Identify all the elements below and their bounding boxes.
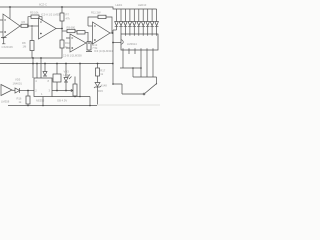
svg-text:VD3: VD3 — [64, 70, 70, 74]
resistor feedback IC2b — [77, 31, 85, 34]
op-amp IC2a — [39, 18, 57, 39]
wire fb to output — [85, 32, 88, 43]
svg-text:6CZ-C: 6CZ-C — [39, 3, 47, 7]
wire column x80 — [79, 64, 81, 97]
capacitor/resistor box below R6 — [30, 41, 34, 51]
LED D8 — [146, 9, 150, 34]
faint scan streak — [97, 104, 160, 106]
wire IC2b output — [86, 42, 93, 44]
wire IC4 out — [12, 89, 15, 91]
wire IC5 signal input — [113, 42, 121, 44]
wire LED1 link — [113, 29, 117, 31]
LED D3 — [124, 9, 128, 34]
resistor R10 — [60, 40, 64, 48]
svg-text:R9 680: R9 680 — [67, 25, 76, 29]
LED bar: 10 LEDs — [115, 9, 159, 34]
LED VD3 — [64, 64, 68, 91]
wire IC2a output — [56, 28, 62, 30]
wire middle rail A — [0, 57, 62, 59]
svg-text:LM358: LM358 — [1, 100, 10, 104]
resistor R7 pullup — [61, 7, 63, 13]
LED D5 — [133, 9, 137, 34]
node railB-column — [112, 63, 114, 65]
svg-text:CX20106: CX20106 — [2, 45, 14, 49]
wire pin1 run — [120, 67, 141, 69]
LED D9 — [150, 9, 154, 34]
wire bottom mid run — [52, 97, 90, 106]
svg-text:R17: R17 — [100, 69, 105, 73]
resistor R17 — [97, 64, 99, 69]
diode VD2 — [43, 64, 47, 77]
zener VS — [94, 76, 101, 106]
node input junction — [27, 25, 29, 27]
wire switch riser — [156, 77, 158, 85]
wire R5 left lead — [28, 17, 31, 26]
wire bottom ground rail — [8, 105, 97, 107]
node fb-output — [87, 42, 89, 44]
switch K — [145, 83, 158, 93]
wire R6 to IC2 input — [28, 25, 39, 27]
LED D2 — [119, 9, 123, 34]
svg-text:1N4001: 1N4001 — [13, 81, 23, 85]
wire R9-fb link — [75, 31, 77, 32]
wire 555 gnd pin — [42, 97, 44, 106]
op-amp IC3 — [93, 22, 111, 44]
svg-text:R6: R6 — [22, 20, 26, 24]
op-amp IC2a polarity marks — [40, 22, 42, 34]
wire top supply rail — [0, 7, 157, 9]
wire divider tap — [31, 27, 33, 40]
component box XB — [56, 64, 58, 75]
svg-text:LM3914: LM3914 — [127, 42, 137, 46]
wire IC1 bias from rail — [9, 7, 11, 19]
node rail-IC1 — [9, 6, 11, 8]
op-amp IC2b polarity marks — [71, 38, 73, 49]
svg-text:NE555: NE555 — [36, 99, 45, 103]
wire IC3 inverting input — [88, 25, 93, 27]
op-amp IC1 — [3, 14, 20, 38]
svg-text:IC2-A 1/2 LM358: IC2-A 1/2 LM358 — [41, 13, 62, 17]
svg-text:IC2-B 1/2LM358: IC2-B 1/2LM358 — [62, 54, 82, 58]
IC5 notch — [121, 40, 123, 44]
svg-text:4148: 4148 — [101, 84, 107, 88]
IC 555 — [34, 78, 52, 97]
svg-text:47k: 47k — [66, 17, 71, 21]
svg-text:GB 4.5V: GB 4.5V — [57, 99, 67, 103]
svg-text:R7: R7 — [66, 13, 70, 17]
resistor R16 — [27, 91, 29, 97]
wire lower bus — [133, 68, 157, 77]
node ground junctions — [27, 105, 29, 107]
LED D7 — [141, 9, 145, 34]
IC5 bottom pins — [123, 50, 153, 77]
resistor R12 — [87, 42, 91, 51]
resistor R6 — [21, 24, 28, 27]
wire 555 pin6 — [40, 58, 42, 78]
wire IC1 output — [20, 25, 21, 27]
wire IC3 output — [110, 32, 113, 34]
svg-text:R10: R10 — [65, 41, 70, 45]
wire R5 right lead — [39, 17, 42, 21]
node rail-R7 — [61, 6, 63, 8]
wire box to rail A — [31, 51, 33, 59]
potentiometer RP — [69, 89, 73, 91]
LED D1 — [115, 9, 119, 30]
capacitor C1 to ground — [1, 38, 7, 44]
IC5 LM3914 DIP — [121, 34, 158, 50]
svg-text:LED: LED — [64, 73, 69, 77]
wire diode to 555 — [20, 90, 35, 92]
wire IC1 input stubs — [0, 20, 3, 32]
resistor R9 — [67, 29, 75, 32]
wire switch feed — [122, 93, 143, 95]
wire long column — [112, 30, 114, 84]
wire 555 pin4 — [32, 58, 34, 78]
wire 555 pin8 — [36, 64, 38, 79]
svg-text:R16: R16 — [17, 97, 22, 101]
op-amp IC1 polarity marks — [4, 20, 6, 33]
wire IC2b input stubs — [66, 38, 70, 48]
svg-text:R15: R15 — [98, 89, 103, 93]
IC5 pin ticks — [121, 34, 157, 50]
diode VD5 — [15, 88, 20, 93]
op-amp IC4 — [1, 85, 12, 96]
resistor R5 — [31, 15, 39, 18]
resistor R11 — [98, 15, 106, 18]
wire to R9 — [62, 30, 67, 32]
svg-text:VD5: VD5 — [15, 78, 21, 82]
wire 555 pin3 run — [52, 90, 69, 92]
svg-text:R11 2W: R11 2W — [91, 11, 101, 15]
LED D4 — [128, 9, 132, 34]
wire feedback riser — [88, 17, 98, 26]
wire R11 to output — [106, 17, 112, 33]
op-amp IC2b — [70, 34, 86, 52]
svg-text:IC3 (1/4)LM324: IC3 (1/4)LM324 — [94, 49, 113, 53]
op-amp IC3 polarity marks — [94, 26, 96, 41]
LED D10 — [155, 9, 159, 34]
LED D6 — [137, 9, 141, 34]
wire middle rail B — [0, 63, 113, 65]
svg-text:LED10: LED10 — [138, 3, 147, 7]
svg-text:R5 10k: R5 10k — [30, 11, 39, 15]
svg-text:R8: R8 — [22, 41, 26, 45]
svg-text:LED1: LED1 — [116, 3, 123, 7]
node output junction — [61, 28, 63, 30]
node output-column — [112, 32, 114, 34]
